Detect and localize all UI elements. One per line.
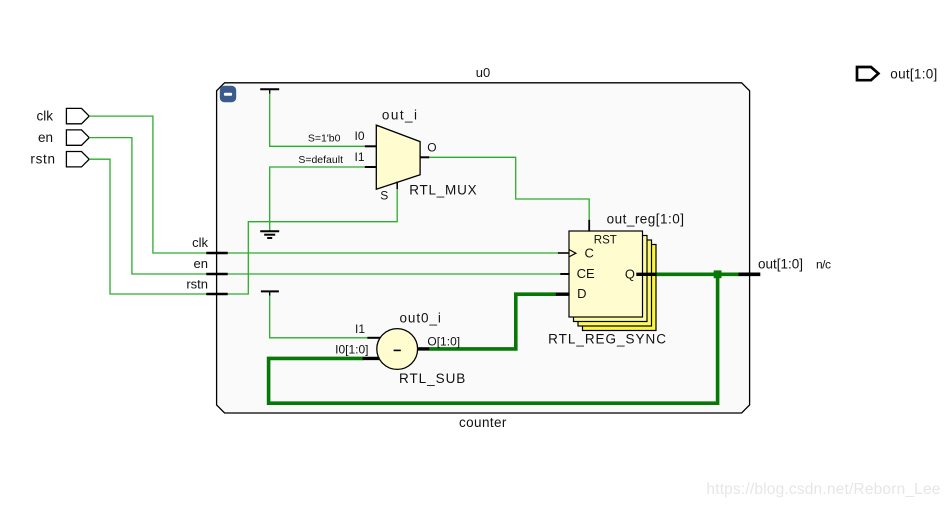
svg-text:RTL_MUX: RTL_MUX: [409, 183, 476, 198]
boundary pin en: [194, 256, 228, 274]
wire mux O to reg RST: [429, 157, 589, 220]
mux pin stub S: [396, 182, 398, 190]
svg-text:Q: Q: [625, 266, 635, 281]
register out_reg[1:0] RTL_REG_SYNC (stack of 4): [569, 231, 656, 331]
svg-text:O[1:0]: O[1:0]: [427, 334, 460, 348]
wire ground to mux I1: [270, 167, 365, 231]
wire const1 to mux I0: [270, 93, 365, 147]
bus sub O to reg D: [429, 294, 557, 349]
svg-text:out[1:0]: out[1:0]: [890, 67, 937, 82]
mux pin stub O: [420, 156, 429, 158]
power const1 (S=1'b0 source): [260, 89, 279, 93]
svg-text:I0[1:0]: I0[1:0]: [335, 342, 368, 356]
reg pin stub Q (bus): [636, 273, 655, 276]
svg-text:https://blog.csdn.net/Reborn_L: https://blog.csdn.net/Reborn_Lee: [706, 481, 940, 498]
boundary pin rstn: [186, 276, 227, 294]
svg-text:I1: I1: [354, 150, 364, 164]
boundary pin out[1:0] (bus, n/c): [739, 257, 832, 275]
svg-text:RTL_REG_SYNC: RTL_REG_SYNC: [548, 331, 666, 346]
svg-text:counter: counter: [459, 415, 507, 430]
wire en (port to CE): [89, 138, 560, 274]
svg-text:S: S: [380, 188, 388, 202]
reg pin stub C: [558, 252, 569, 254]
svg-text:out0_i: out0_i: [400, 310, 441, 325]
svg-text:out_i: out_i: [382, 108, 417, 123]
sub pin stub I0 (bus): [363, 357, 380, 360]
reg pin stub D (bus): [556, 293, 570, 296]
svg-text:clk: clk: [37, 109, 54, 124]
svg-text:rstn: rstn: [186, 276, 208, 291]
junction on Q net: [714, 270, 722, 278]
boundary pin clk: [192, 235, 228, 253]
svg-text:RTL_SUB: RTL_SUB: [399, 371, 465, 386]
wire clk (port to C): [89, 116, 558, 253]
subtractor out0_i RTL_SUB: [377, 329, 418, 370]
power const2 (sub I1 source): [261, 291, 279, 295]
svg-text:u0: u0: [476, 65, 490, 80]
svg-text:en: en: [194, 256, 208, 271]
svg-text:clk: clk: [192, 235, 208, 250]
svg-text:O: O: [427, 140, 436, 154]
ground (mux I1 source): [260, 231, 279, 238]
svg-text:out[1:0]: out[1:0]: [758, 257, 803, 272]
wire rstn (port to mux S): [89, 159, 397, 294]
svg-text:RST: RST: [594, 234, 617, 246]
mux pin stub I0: [365, 145, 377, 147]
svg-text:en: en: [38, 130, 53, 145]
mux pin stub I1: [365, 166, 377, 168]
svg-text:out_reg[1:0]: out_reg[1:0]: [607, 212, 684, 227]
bus reg Q to out pin: [655, 272, 739, 276]
svg-text:n/c: n/c: [816, 258, 831, 272]
output port out[1:0] (top right): [857, 67, 937, 82]
svg-text:CE: CE: [577, 266, 595, 281]
svg-text:C: C: [585, 245, 594, 260]
svg-text:I0: I0: [354, 129, 364, 143]
collapse (minus) button: [220, 86, 236, 102]
input port en: [38, 130, 89, 145]
reg clock wedge C: [569, 250, 576, 257]
svg-text:S=default: S=default: [298, 154, 343, 166]
hierarchical block u0 (counter): [217, 83, 750, 413]
svg-text:rstn: rstn: [30, 152, 55, 167]
svg-text:I1: I1: [355, 322, 365, 336]
svg-text:S=1'b0: S=1'b0: [308, 133, 341, 145]
bus feedback Q to sub I0: [269, 274, 718, 403]
input port rstn: [30, 152, 89, 167]
reg pin stub RST: [588, 220, 590, 232]
reg pin stub CE: [560, 273, 569, 275]
wire const2 to sub I1: [270, 295, 368, 338]
sub pin stub I1: [367, 337, 380, 339]
svg-text:D: D: [577, 286, 586, 301]
mux out_i RTL_MUX: [376, 125, 420, 189]
input port clk: [37, 108, 90, 123]
sub pin stub O (bus): [418, 347, 429, 350]
